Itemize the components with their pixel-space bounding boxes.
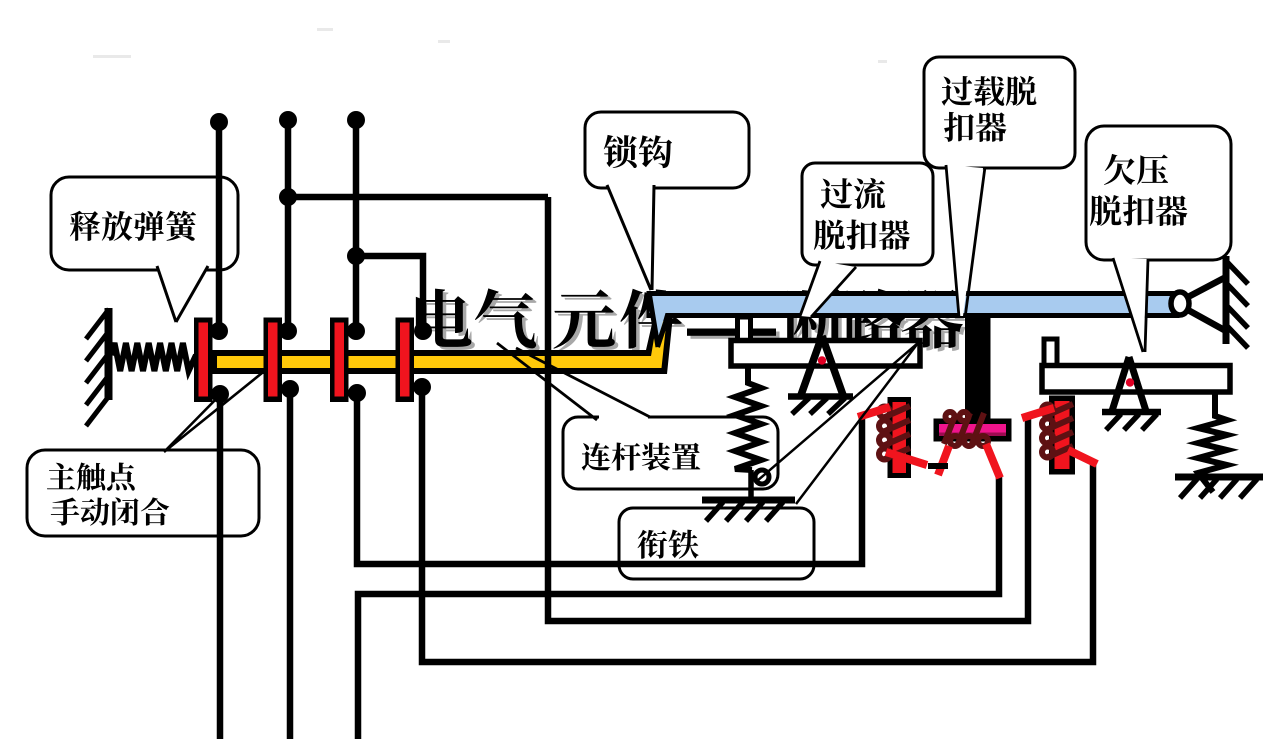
lock hook (blue wedge under left end of trip bar) [650, 297, 666, 344]
link dash [928, 463, 948, 469]
wire: link line to overload coil loop [548, 197, 1028, 621]
pivot dot (red) [818, 356, 826, 364]
undervoltage spring [1198, 392, 1227, 492]
contact 4 (red) [396, 318, 415, 403]
callout bubble 欠压脱扣器 (undervoltage release) [1086, 126, 1231, 352]
undervoltage lever stub [1044, 339, 1057, 366]
callout bubble 锁钩 (latch hook) [585, 112, 749, 290]
pivot eye at right end of trip bar [1171, 292, 1189, 315]
contact 2 (red) [264, 318, 283, 403]
wall anchor (right) [1226, 256, 1248, 348]
overcurrent coil (red core) [888, 397, 912, 478]
pivot triangle (undervoltage) [1112, 357, 1146, 411]
supply wires (top) [219, 120, 1028, 621]
callout bubble 释放弹簧 (release spring) [51, 177, 238, 322]
load wires (bottom) [220, 387, 1093, 739]
undervoltage coil (red core) [1049, 396, 1075, 475]
contact 1 (red) [194, 318, 213, 403]
release spring (horizontal zigzag) [111, 343, 196, 371]
callout bubble 过流脱扣器 (overcurrent release) [800, 163, 933, 317]
spring ground [1175, 474, 1263, 481]
bracket to wall [1188, 277, 1226, 331]
overload coil leads (red) [938, 444, 1000, 478]
title 电气元件——断路器 [416, 288, 966, 352]
pivot base + ground hatches [788, 393, 853, 400]
callout bubble 衔铁 (armature) [619, 508, 814, 579]
contact 3 (red) [330, 318, 349, 403]
armature ground [702, 497, 795, 504]
linkage rods [757, 343, 918, 504]
overload coil core (magenta) [934, 419, 1012, 442]
pivot triangle (overcurrent) [801, 336, 843, 395]
callout bubble 连杆装置 (linkage) [497, 343, 778, 489]
callout bubble 过载脱扣器 (overload release) [924, 57, 1075, 318]
overload plunger (black bar) [965, 315, 991, 419]
spring end loop [755, 470, 769, 484]
callout bubble 主触点/手动闭合 (main contacts, manually closed) [27, 369, 267, 536]
junction dots [210, 111, 432, 403]
overcurrent trip lever stub [738, 317, 751, 343]
trip bar (blue) [649, 294, 1177, 316]
overcurrent return spring (vertical zigzag) [735, 366, 761, 470]
wall anchor (left) [86, 308, 109, 426]
overcurrent trip lever [731, 341, 920, 367]
undervoltage lever [1042, 366, 1230, 393]
overload coil windings [944, 412, 988, 446]
main contact bar (yellow) [211, 315, 673, 374]
